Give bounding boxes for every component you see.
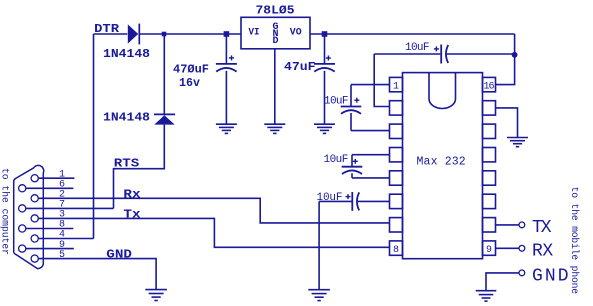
svg-text:47uF: 47uF: [284, 61, 316, 74]
wire rail diode to 78L05 VI: [139, 33, 241, 35]
wire Rx (DB9 pin2 to Max232 pin7): [38, 198, 389, 223]
wire 78L05 GND pin: [274, 49, 276, 124]
svg-text:5: 5: [59, 250, 65, 261]
pin 6 box: [390, 194, 403, 208]
svg-text:GND: GND: [106, 248, 132, 261]
regulator U2 78L05 box: [241, 17, 310, 49]
wire stub pin4: [38, 238, 93, 240]
pin 5 box: [390, 171, 403, 185]
ground G5 (below C6): [308, 290, 330, 301]
svg-text:DTR: DTR: [94, 23, 119, 36]
pin 9 box: [483, 241, 496, 255]
DB9 connector shell: [14, 165, 44, 268]
pin 3 box: [390, 124, 403, 138]
wire rail right corner down to pin16: [496, 34, 515, 85]
ground G1 (below 470uF): [216, 124, 237, 133]
wire pin15 to ground: [496, 108, 518, 137]
node junction at D2 top: [162, 32, 167, 37]
ground G4 (right of chip): [507, 138, 528, 147]
svg-text:1N4148: 1N4148: [103, 112, 150, 125]
svg-text:D: D: [272, 36, 278, 47]
pin 4 box: [390, 148, 403, 162]
wire D2 to RTS corner: [114, 125, 165, 209]
DB9 pin 3 circle: [31, 215, 38, 222]
capacitor C4 10uF (pin1-pin3): [341, 85, 390, 131]
svg-text:1N4148: 1N4148: [103, 48, 150, 61]
pin 16 box: [483, 77, 496, 91]
svg-text:Max 232: Max 232: [417, 155, 466, 168]
svg-text:to the mobile phone: to the mobile phone: [569, 187, 580, 295]
svg-text:VO: VO: [290, 26, 302, 38]
wire DTR vertical to DB9 pin 4: [93, 34, 95, 239]
diode D2 1N4148 (vertical, pointing up): [154, 114, 175, 124]
pin 8 box: [390, 241, 403, 255]
svg-text:47ØuF: 47ØuF: [173, 64, 209, 77]
DB9 pin 6 circle: [19, 185, 26, 192]
wire D2 vertical upper: [163, 34, 165, 114]
svg-text:RX: RX: [532, 241, 553, 261]
capacitor C5 10uF (pin4-pin5): [342, 155, 390, 178]
diode D1 1N4148 (horizontal): [128, 24, 140, 45]
DB9 pin 8 circle: [19, 225, 26, 232]
wire TX from pin10: [496, 224, 520, 226]
ground G7 (below GND terminal): [476, 291, 497, 301]
svg-text:78LØ5: 78LØ5: [256, 5, 295, 18]
pin 12 box: [483, 171, 496, 185]
svg-text:16v: 16v: [179, 77, 200, 90]
pin 14 box: [483, 124, 496, 138]
svg-text:to the computer: to the computer: [0, 168, 11, 255]
pin 7 box: [390, 218, 403, 232]
svg-text:Tx: Tx: [123, 209, 140, 222]
svg-text:16: 16: [484, 81, 495, 92]
wire stub pin1: [38, 177, 74, 179]
pin 15 box: [483, 101, 496, 115]
wire VO rail: [310, 33, 515, 35]
capacitor C2 47uF: [314, 34, 335, 124]
svg-text:8: 8: [393, 245, 399, 256]
wire C3 to pin2: [374, 54, 389, 107]
DB9 pin 7 circle: [19, 205, 26, 212]
ground G2 (below 78L05): [264, 124, 285, 133]
wire Tx (DB9 pin3 to Max232 pin8): [38, 218, 389, 247]
DB9 pin 9 circle: [19, 245, 26, 252]
IC U1 Max232 body: [403, 73, 483, 259]
wire GND terminal to ground: [486, 273, 519, 290]
wire GND (DB9 pin5): [38, 259, 156, 290]
node GND terminal circle: [519, 270, 525, 276]
DB9 pin 5 circle: [31, 255, 38, 262]
svg-text:10uF: 10uF: [324, 154, 349, 166]
node RX terminal circle: [519, 245, 525, 251]
svg-text:Rx: Rx: [123, 188, 140, 201]
svg-text:RTS: RTS: [114, 158, 140, 171]
pin 11 box: [483, 194, 496, 208]
ground G3 (below 47uF): [314, 124, 335, 133]
svg-text:10uF: 10uF: [324, 96, 349, 108]
wire stub pin8: [26, 228, 74, 230]
capacitor C1 470uF: [216, 34, 237, 124]
wire stub pin9: [26, 248, 74, 250]
svg-text:1: 1: [393, 81, 399, 92]
node junction at 47uF: [322, 31, 328, 37]
capacitor C3 10uF (inline, top): [374, 45, 514, 64]
label DB9 pin numbers: [59, 169, 65, 260]
DB9 pin 1 circle: [31, 175, 38, 182]
wire C6 down to ground: [318, 201, 320, 289]
wire stub pin6: [26, 187, 74, 189]
DB9 pin 4 circle: [31, 235, 38, 242]
svg-text:VI: VI: [249, 26, 260, 38]
svg-text:10uF: 10uF: [317, 192, 343, 204]
pin 10 box: [483, 218, 496, 232]
node junction dot V+: [512, 52, 518, 58]
ground G6 (below GND wire): [145, 290, 167, 301]
pin 1 box: [390, 77, 403, 91]
svg-text:9: 9: [486, 245, 492, 256]
wire DTR rail left segment: [94, 33, 128, 35]
wire stub pin7 to RTS: [26, 207, 114, 209]
pin 13 box: [483, 148, 496, 162]
capacitor C6 10uF (inline at pin6): [319, 192, 389, 211]
svg-text:TX: TX: [532, 218, 552, 238]
svg-text:10uF: 10uF: [405, 42, 430, 54]
pin 2 box: [390, 101, 403, 115]
DB9 pin 2 circle: [31, 195, 38, 202]
node junction at 470uF: [224, 31, 230, 37]
Max232 notch: [429, 73, 456, 109]
svg-text:GND: GND: [532, 267, 569, 287]
wire RX from pin9: [496, 247, 520, 249]
node TX terminal circle: [519, 222, 525, 228]
